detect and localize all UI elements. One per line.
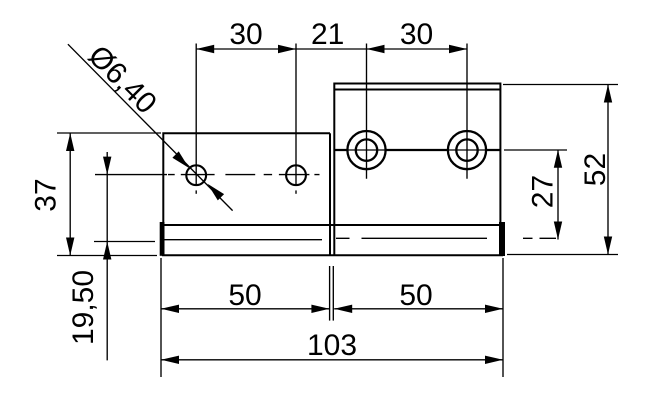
- dim 19,50 extension top: [95, 174, 167, 176]
- dim 50 right line: [334, 308, 503, 310]
- top dimension line: [196, 48, 467, 50]
- base right end cap: [499, 222, 505, 256]
- left holes centerline (dash-dot): [168, 174, 320, 176]
- left plate outline: [163, 133, 330, 255]
- hole axis extension right: [504, 149, 567, 151]
- dim 50 right arrows: [334, 305, 503, 313]
- dim 27 arrows: [554, 150, 562, 240]
- hole H3 (right plate, counterbored): [347, 131, 385, 169]
- right plate outline: [334, 84, 500, 256]
- leader arrow upper: [172, 151, 189, 168]
- dim 19,50 line: [106, 152, 108, 360]
- dim 50 left arrows: [161, 305, 329, 313]
- dim 52 arrows: [604, 85, 612, 255]
- leader arrow lower: [208, 184, 225, 201]
- hole H1 (left plate): [186, 165, 206, 185]
- base strip mid edge left: [165, 239, 323, 241]
- hole H2 (left plate): [286, 165, 306, 185]
- svg-text:30: 30: [400, 18, 433, 51]
- diameter leader line: [68, 44, 233, 210]
- dim 37 arrows: [66, 133, 74, 256]
- bottom extension junction right: [332, 266, 334, 321]
- base strip outline: [162, 225, 503, 255]
- right plate hole axis line: [334, 149, 500, 151]
- svg-text:21: 21: [311, 18, 344, 51]
- dim 52 extension top: [503, 84, 618, 86]
- hole H4 (right plate, counterbored): [448, 131, 486, 169]
- svg-text:50: 50: [399, 279, 432, 312]
- svg-text:27: 27: [527, 175, 560, 208]
- bottom extension line left: [160, 258, 162, 377]
- svg-text:19,50: 19,50: [67, 270, 100, 345]
- dim 37 line: [69, 133, 71, 256]
- base left end cap: [160, 222, 165, 256]
- dim 19,50 arrows: [103, 157, 111, 260]
- svg-text:103: 103: [307, 329, 357, 362]
- dim 19,50 extension bottom: [94, 241, 155, 243]
- dim 37 extension top: [57, 132, 161, 134]
- base strip centerline right (dash-dot): [336, 237, 556, 239]
- svg-text:50: 50: [228, 279, 261, 312]
- dim 52 extension bottom: [507, 254, 618, 256]
- hole H2 vertical centerline / extension: [295, 44, 297, 194]
- svg-text:30: 30: [229, 18, 262, 51]
- hole H4 vertical centerline / extension: [466, 44, 468, 179]
- dim 52 line: [607, 85, 609, 255]
- dim 103 arrows: [161, 356, 503, 364]
- svg-text:52: 52: [579, 153, 612, 186]
- hole H3 vertical centerline / extension: [366, 44, 368, 179]
- dim 50 left line: [161, 308, 329, 310]
- svg-text:37: 37: [30, 178, 63, 211]
- dim 103 line: [161, 359, 503, 361]
- dim 37 extension bottom: [57, 255, 157, 257]
- bottom extension line right: [502, 258, 504, 377]
- hole H1 vertical centerline / extension: [195, 44, 197, 194]
- top dim arrows: [196, 45, 467, 53]
- bottom extension junction left: [329, 266, 331, 321]
- dim 27 line: [557, 150, 559, 240]
